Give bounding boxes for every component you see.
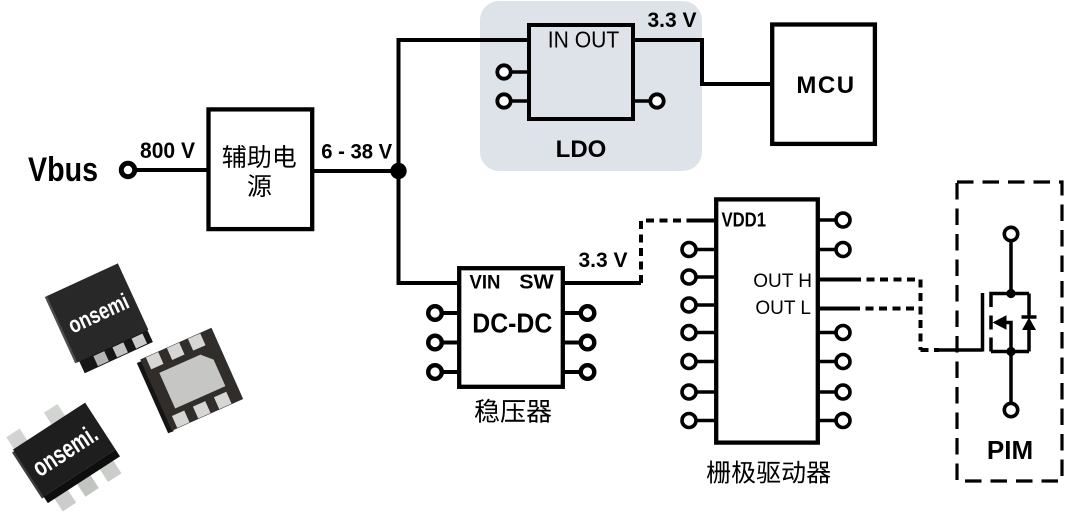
- svg-text:SW: SW: [519, 272, 554, 294]
- DC-DC pin circle right 3: [581, 365, 595, 379]
- DC-DC pin stub left 1: [443, 311, 457, 315]
- LDO pin stub left 1: [510, 70, 527, 74]
- svg-text:MCU: MCU: [796, 72, 855, 99]
- gate driver pin circle left 5: [682, 355, 696, 369]
- PIM top terminal: [1004, 227, 1017, 240]
- chip package photo SOT-23-5: [3, 391, 128, 512]
- DC-DC pin circle right 2: [581, 336, 595, 350]
- gate driver pin circle right 6: [836, 414, 850, 428]
- gate driver pin circle right 4: [836, 355, 850, 369]
- gate driver pin stub right 1: [819, 218, 836, 222]
- MOSFET channel bottom segment: [989, 338, 993, 352]
- wire stub VDD1: [687, 219, 714, 223]
- gate driver pin stub left 2: [696, 275, 714, 279]
- gate driver pin stub left 7: [696, 419, 714, 423]
- LDO pin circle left 1: [497, 65, 510, 78]
- svg-text:VIN: VIN: [470, 273, 501, 294]
- PIM bottom terminal: [1004, 403, 1017, 416]
- svg-text:DC-DC: DC-DC: [472, 308, 552, 339]
- DC-DC pin stub right 2: [565, 341, 579, 345]
- gate driver pin stub right 2: [819, 248, 836, 252]
- svg-text:IN OUT: IN OUT: [548, 27, 620, 53]
- gate driver pin circle right 2: [836, 243, 850, 257]
- block gate driver: [716, 199, 818, 442]
- block auxiliary power supply 辅助电源: [209, 109, 313, 229]
- LDO pin circle right: [650, 94, 663, 107]
- svg-text:OUT L: OUT L: [755, 298, 811, 319]
- LDO pin stub right: [635, 99, 650, 103]
- body diode D1 cathode bar: [1022, 315, 1037, 319]
- gate driver pin circle left 6: [682, 385, 696, 399]
- dashed wire OUT H: [853, 280, 921, 351]
- DC-DC pin stub right 3: [565, 370, 579, 374]
- gate driver pin stub left 5: [696, 360, 714, 364]
- DC-DC pin circle left 1: [428, 306, 442, 320]
- gate driver pin circle right 3: [836, 326, 850, 340]
- wire junction down to DC-DC: [399, 171, 458, 283]
- body diode D1 branch top: [1027, 294, 1031, 318]
- MOSFET bottom junction dot: [1006, 347, 1015, 356]
- DC-DC pin stub right 1: [565, 311, 579, 315]
- svg-text:Vbus: Vbus: [28, 151, 98, 189]
- wire LDO out to MCU: [635, 40, 770, 84]
- DC-DC pin circle left 3: [428, 365, 442, 379]
- LDO pin stub left 2: [510, 99, 527, 103]
- gate driver pin circle right 5: [836, 385, 850, 399]
- svg-text:OUT H: OUT H: [753, 271, 812, 292]
- block MCU: [772, 25, 875, 144]
- svg-text:VDD1: VDD1: [722, 210, 767, 232]
- dashed wire to VDD1: [641, 221, 689, 284]
- wire DC-DC SW output: [565, 281, 641, 285]
- chip package photo DFN top view: [45, 263, 154, 375]
- wire OUT L: [819, 307, 852, 311]
- gate driver pin circle left 7: [682, 414, 696, 428]
- MOSFET top junction dot: [1006, 289, 1015, 298]
- body diode D1 triangle: [1022, 318, 1036, 331]
- body diode D1 branch bottom: [1027, 330, 1031, 352]
- terminal Vbus: [121, 163, 134, 176]
- MOSFET source arrow: [993, 315, 1007, 330]
- block PIM dashed outline: [957, 182, 1062, 481]
- wire aux supply to junction: [314, 169, 400, 173]
- gate driver pin stub right 4: [819, 360, 836, 364]
- MOSFET channel mid segment: [989, 316, 993, 330]
- MOSFET source link: [1005, 323, 1011, 352]
- gate driver pin stub left 3: [696, 303, 714, 307]
- block LDO: [529, 25, 633, 119]
- wire OUT H: [819, 278, 853, 282]
- svg-text:3.3 V: 3.3 V: [578, 249, 627, 272]
- DC-DC pin circle left 2: [428, 336, 442, 350]
- wire junction up to LDO: [399, 40, 528, 171]
- dashed wire to PIM gate: [921, 348, 940, 352]
- gate driver pin circle left 3: [682, 298, 696, 312]
- label 稳压器: [475, 399, 551, 423]
- svg-text:6 - 38 V: 6 - 38 V: [321, 141, 392, 164]
- DC-DC pin circle right 1: [581, 306, 595, 320]
- svg-text:3.3 V: 3.3 V: [647, 9, 696, 32]
- MOSFET gate bar: [981, 293, 985, 352]
- wire Vbus to aux supply: [137, 168, 209, 172]
- gate driver pin stub left 4: [696, 331, 714, 335]
- label 栅极驱动器: [707, 461, 831, 484]
- gate driver pin stub right 3: [819, 331, 836, 335]
- dashed wire OUT L: [852, 307, 918, 311]
- DC-DC pin stub left 2: [443, 341, 457, 345]
- chip package photo DFN bottom view: [136, 328, 244, 434]
- MOSFET Q1 top bar: [991, 294, 1029, 308]
- svg-text:800 V: 800 V: [140, 138, 195, 163]
- gate driver pin stub right 5: [819, 390, 836, 394]
- wire PIM top: [1009, 241, 1013, 294]
- gate driver pin stub right 6: [819, 419, 836, 423]
- gate driver pin circle right 1: [836, 213, 850, 227]
- LDO block background: [480, 1, 702, 171]
- DC-DC pin stub left 3: [443, 370, 457, 374]
- junction node dot: [390, 163, 406, 179]
- MOSFET bottom bar: [991, 350, 1029, 354]
- block DC-DC regulator: [459, 268, 563, 387]
- gate driver pin circle left 4: [682, 326, 696, 340]
- wire to PIM gate: [937, 348, 983, 352]
- svg-text:LDO: LDO: [556, 136, 607, 163]
- svg-text:PIM: PIM: [987, 435, 1033, 465]
- gate driver pin circle left 1: [682, 243, 696, 257]
- wire PIM bottom: [1009, 352, 1013, 404]
- gate driver pin stub left 6: [696, 390, 714, 394]
- gate driver pin circle left 2: [682, 270, 696, 284]
- LDO pin circle left 2: [497, 94, 510, 107]
- gate driver pin stub left 1: [696, 248, 714, 252]
